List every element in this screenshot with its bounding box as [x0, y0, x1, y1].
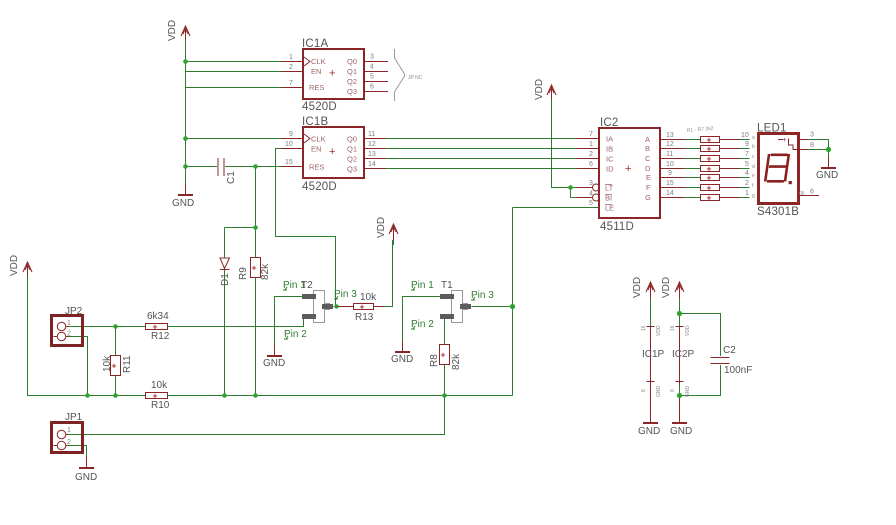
svg-text:VDD: VDD — [9, 255, 20, 276]
svg-text:R10: R10 — [151, 400, 170, 411]
svg-text:8: 8 — [670, 389, 676, 392]
svg-text:13: 13 — [666, 132, 674, 139]
svg-text:B: B — [645, 144, 650, 153]
svg-text:R8: R8 — [429, 354, 440, 367]
svg-text:T2: T2 — [301, 280, 313, 291]
svg-text:3: 3 — [810, 132, 814, 139]
svg-text:IC2P: IC2P — [672, 349, 695, 360]
svg-text:VDD: VDD — [632, 277, 643, 298]
svg-text:14: 14 — [368, 161, 376, 168]
svg-text:5: 5 — [370, 74, 374, 81]
svg-text:RES: RES — [309, 163, 324, 172]
svg-text:6: 6 — [589, 161, 593, 168]
svg-text:4: 4 — [370, 64, 374, 71]
svg-text:LED1: LED1 — [757, 123, 787, 135]
svg-text:3: 3 — [370, 54, 374, 61]
svg-text:VDD: VDD — [661, 277, 672, 298]
svg-text:10k: 10k — [102, 355, 113, 372]
svg-text:GND: GND — [670, 426, 692, 437]
svg-text:C1: C1 — [226, 171, 237, 184]
svg-text:IC: IC — [606, 155, 614, 164]
svg-text:16: 16 — [670, 325, 676, 331]
svg-text:VDD: VDD — [376, 217, 387, 238]
svg-text:2: 2 — [745, 180, 749, 187]
svg-text:+: + — [329, 68, 335, 80]
svg-text:7: 7 — [589, 131, 593, 138]
svg-text:Pin 1: Pin 1 — [411, 280, 434, 291]
svg-text:5: 5 — [745, 161, 749, 168]
svg-text:8: 8 — [641, 389, 647, 392]
svg-text:1: 1 — [67, 427, 71, 434]
svg-text:VDD: VDD — [167, 20, 178, 41]
svg-text:4: 4 — [589, 191, 593, 198]
svg-text:10: 10 — [285, 141, 293, 148]
svg-text:5: 5 — [589, 200, 593, 207]
svg-text:1: 1 — [289, 54, 293, 61]
svg-text:9: 9 — [289, 131, 293, 138]
svg-text:GND: GND — [816, 170, 838, 181]
svg-text:a: a — [752, 135, 755, 141]
svg-text:+: + — [441, 350, 446, 360]
svg-text:2: 2 — [67, 439, 71, 446]
svg-text:CLK: CLK — [311, 135, 326, 144]
svg-text:1: 1 — [745, 190, 749, 197]
svg-text:C2: C2 — [723, 345, 736, 356]
svg-text:82k: 82k — [260, 263, 271, 280]
svg-text:Pin 3: Pin 3 — [471, 290, 494, 301]
svg-text:b: b — [752, 144, 755, 150]
svg-text:11: 11 — [368, 131, 375, 138]
svg-text:R12: R12 — [151, 331, 170, 342]
svg-text:10k: 10k — [360, 292, 377, 303]
svg-text:+: + — [252, 263, 257, 273]
svg-text:12: 12 — [666, 141, 674, 148]
svg-text:6: 6 — [370, 84, 374, 91]
svg-text:CLK: CLK — [311, 57, 326, 66]
svg-text:+: + — [153, 390, 158, 400]
svg-text:GND: GND — [638, 426, 660, 437]
svg-text:VDD: VDD — [534, 79, 545, 100]
svg-text:Q2: Q2 — [347, 77, 357, 86]
svg-text:4511D: 4511D — [600, 221, 634, 233]
svg-text:+: + — [707, 153, 712, 163]
svg-text:+: + — [153, 321, 158, 331]
svg-text:GND: GND — [685, 386, 691, 398]
svg-text:E: E — [646, 173, 651, 182]
svg-text:7: 7 — [745, 151, 749, 158]
svg-text:JP NC: JP NC — [408, 75, 423, 81]
svg-text:Q0: Q0 — [347, 135, 357, 144]
svg-text:Pin 2: Pin 2 — [411, 319, 434, 330]
svg-text:IC2: IC2 — [600, 117, 619, 129]
svg-text:GND: GND — [656, 386, 662, 398]
svg-text:2: 2 — [589, 151, 593, 158]
svg-text:15: 15 — [285, 159, 293, 166]
svg-text:IC1P: IC1P — [642, 349, 665, 360]
svg-text:GND: GND — [75, 472, 97, 483]
svg-text:GND: GND — [391, 354, 413, 365]
svg-text:11: 11 — [666, 151, 673, 158]
svg-text:R11: R11 — [122, 355, 133, 373]
svg-text:C: C — [645, 154, 651, 163]
svg-text:R13: R13 — [355, 312, 374, 323]
svg-text:F: F — [646, 183, 651, 192]
svg-text:VDD: VDD — [685, 325, 691, 336]
svg-text:IA: IA — [606, 135, 613, 144]
svg-text:+: + — [707, 143, 712, 153]
svg-text:6k34: 6k34 — [147, 311, 169, 322]
svg-text:+: + — [783, 137, 787, 144]
svg-text:Q2: Q2 — [347, 155, 357, 164]
svg-text:R9: R9 — [238, 267, 249, 280]
svg-text:g: g — [752, 193, 755, 199]
svg-text:4520D: 4520D — [302, 181, 337, 193]
svg-text:IC1A: IC1A — [302, 38, 328, 50]
svg-text:VDD: VDD — [656, 325, 662, 336]
svg-text:+: + — [707, 172, 712, 182]
svg-text:A: A — [645, 135, 650, 144]
svg-text:d: d — [752, 164, 755, 170]
svg-text:1: 1 — [67, 320, 71, 327]
svg-text:16: 16 — [641, 325, 647, 331]
svg-text:RES: RES — [309, 83, 324, 92]
svg-text:GND: GND — [172, 198, 194, 209]
svg-text:D1: D1 — [220, 273, 231, 286]
svg-text:82k: 82k — [451, 353, 462, 370]
svg-text:6: 6 — [810, 189, 814, 196]
svg-text:Q3: Q3 — [347, 87, 357, 96]
svg-text:4520D: 4520D — [302, 101, 337, 113]
svg-text:9: 9 — [745, 141, 749, 148]
svg-text:1: 1 — [589, 141, 593, 148]
svg-text:Pin 2: Pin 2 — [284, 329, 307, 340]
svg-text:S4301B: S4301B — [757, 206, 799, 218]
svg-text:+: + — [707, 182, 712, 192]
svg-text:Pin 3: Pin 3 — [334, 289, 357, 300]
svg-text:8: 8 — [810, 142, 814, 149]
svg-text:D: D — [645, 164, 651, 173]
svg-text:ID: ID — [606, 165, 614, 174]
svg-text:IB: IB — [606, 145, 613, 154]
svg-text:14: 14 — [666, 190, 674, 197]
svg-text:Q3: Q3 — [347, 165, 357, 174]
svg-text:4: 4 — [745, 170, 749, 177]
svg-text:EN: EN — [311, 145, 321, 154]
svg-text:+: + — [329, 146, 335, 158]
svg-text:IC1B: IC1B — [302, 116, 328, 128]
svg-text:7: 7 — [289, 80, 293, 87]
svg-text:G: G — [645, 193, 651, 202]
svg-text:9: 9 — [668, 170, 672, 177]
svg-text:13: 13 — [368, 151, 376, 158]
svg-text:GND: GND — [263, 358, 285, 369]
svg-text:15: 15 — [666, 180, 674, 187]
svg-text:+: + — [707, 192, 712, 202]
svg-text:e: e — [752, 173, 755, 179]
svg-text:Q1: Q1 — [347, 145, 357, 154]
svg-text:2: 2 — [67, 331, 71, 338]
svg-text:JP2: JP2 — [65, 306, 83, 317]
svg-text:EN: EN — [311, 67, 321, 76]
svg-text:+: + — [625, 163, 631, 175]
svg-text:Q0: Q0 — [347, 57, 357, 66]
svg-text:T1: T1 — [441, 280, 453, 291]
svg-text:10: 10 — [741, 132, 749, 139]
svg-text:10k: 10k — [151, 380, 168, 391]
svg-text:10: 10 — [666, 161, 674, 168]
svg-text:Q1: Q1 — [347, 67, 357, 76]
svg-text:12: 12 — [368, 141, 376, 148]
svg-text:100nF: 100nF — [724, 365, 752, 376]
svg-text:3: 3 — [589, 180, 593, 187]
svg-text:JP1: JP1 — [65, 412, 83, 423]
svg-text:2: 2 — [289, 64, 293, 71]
